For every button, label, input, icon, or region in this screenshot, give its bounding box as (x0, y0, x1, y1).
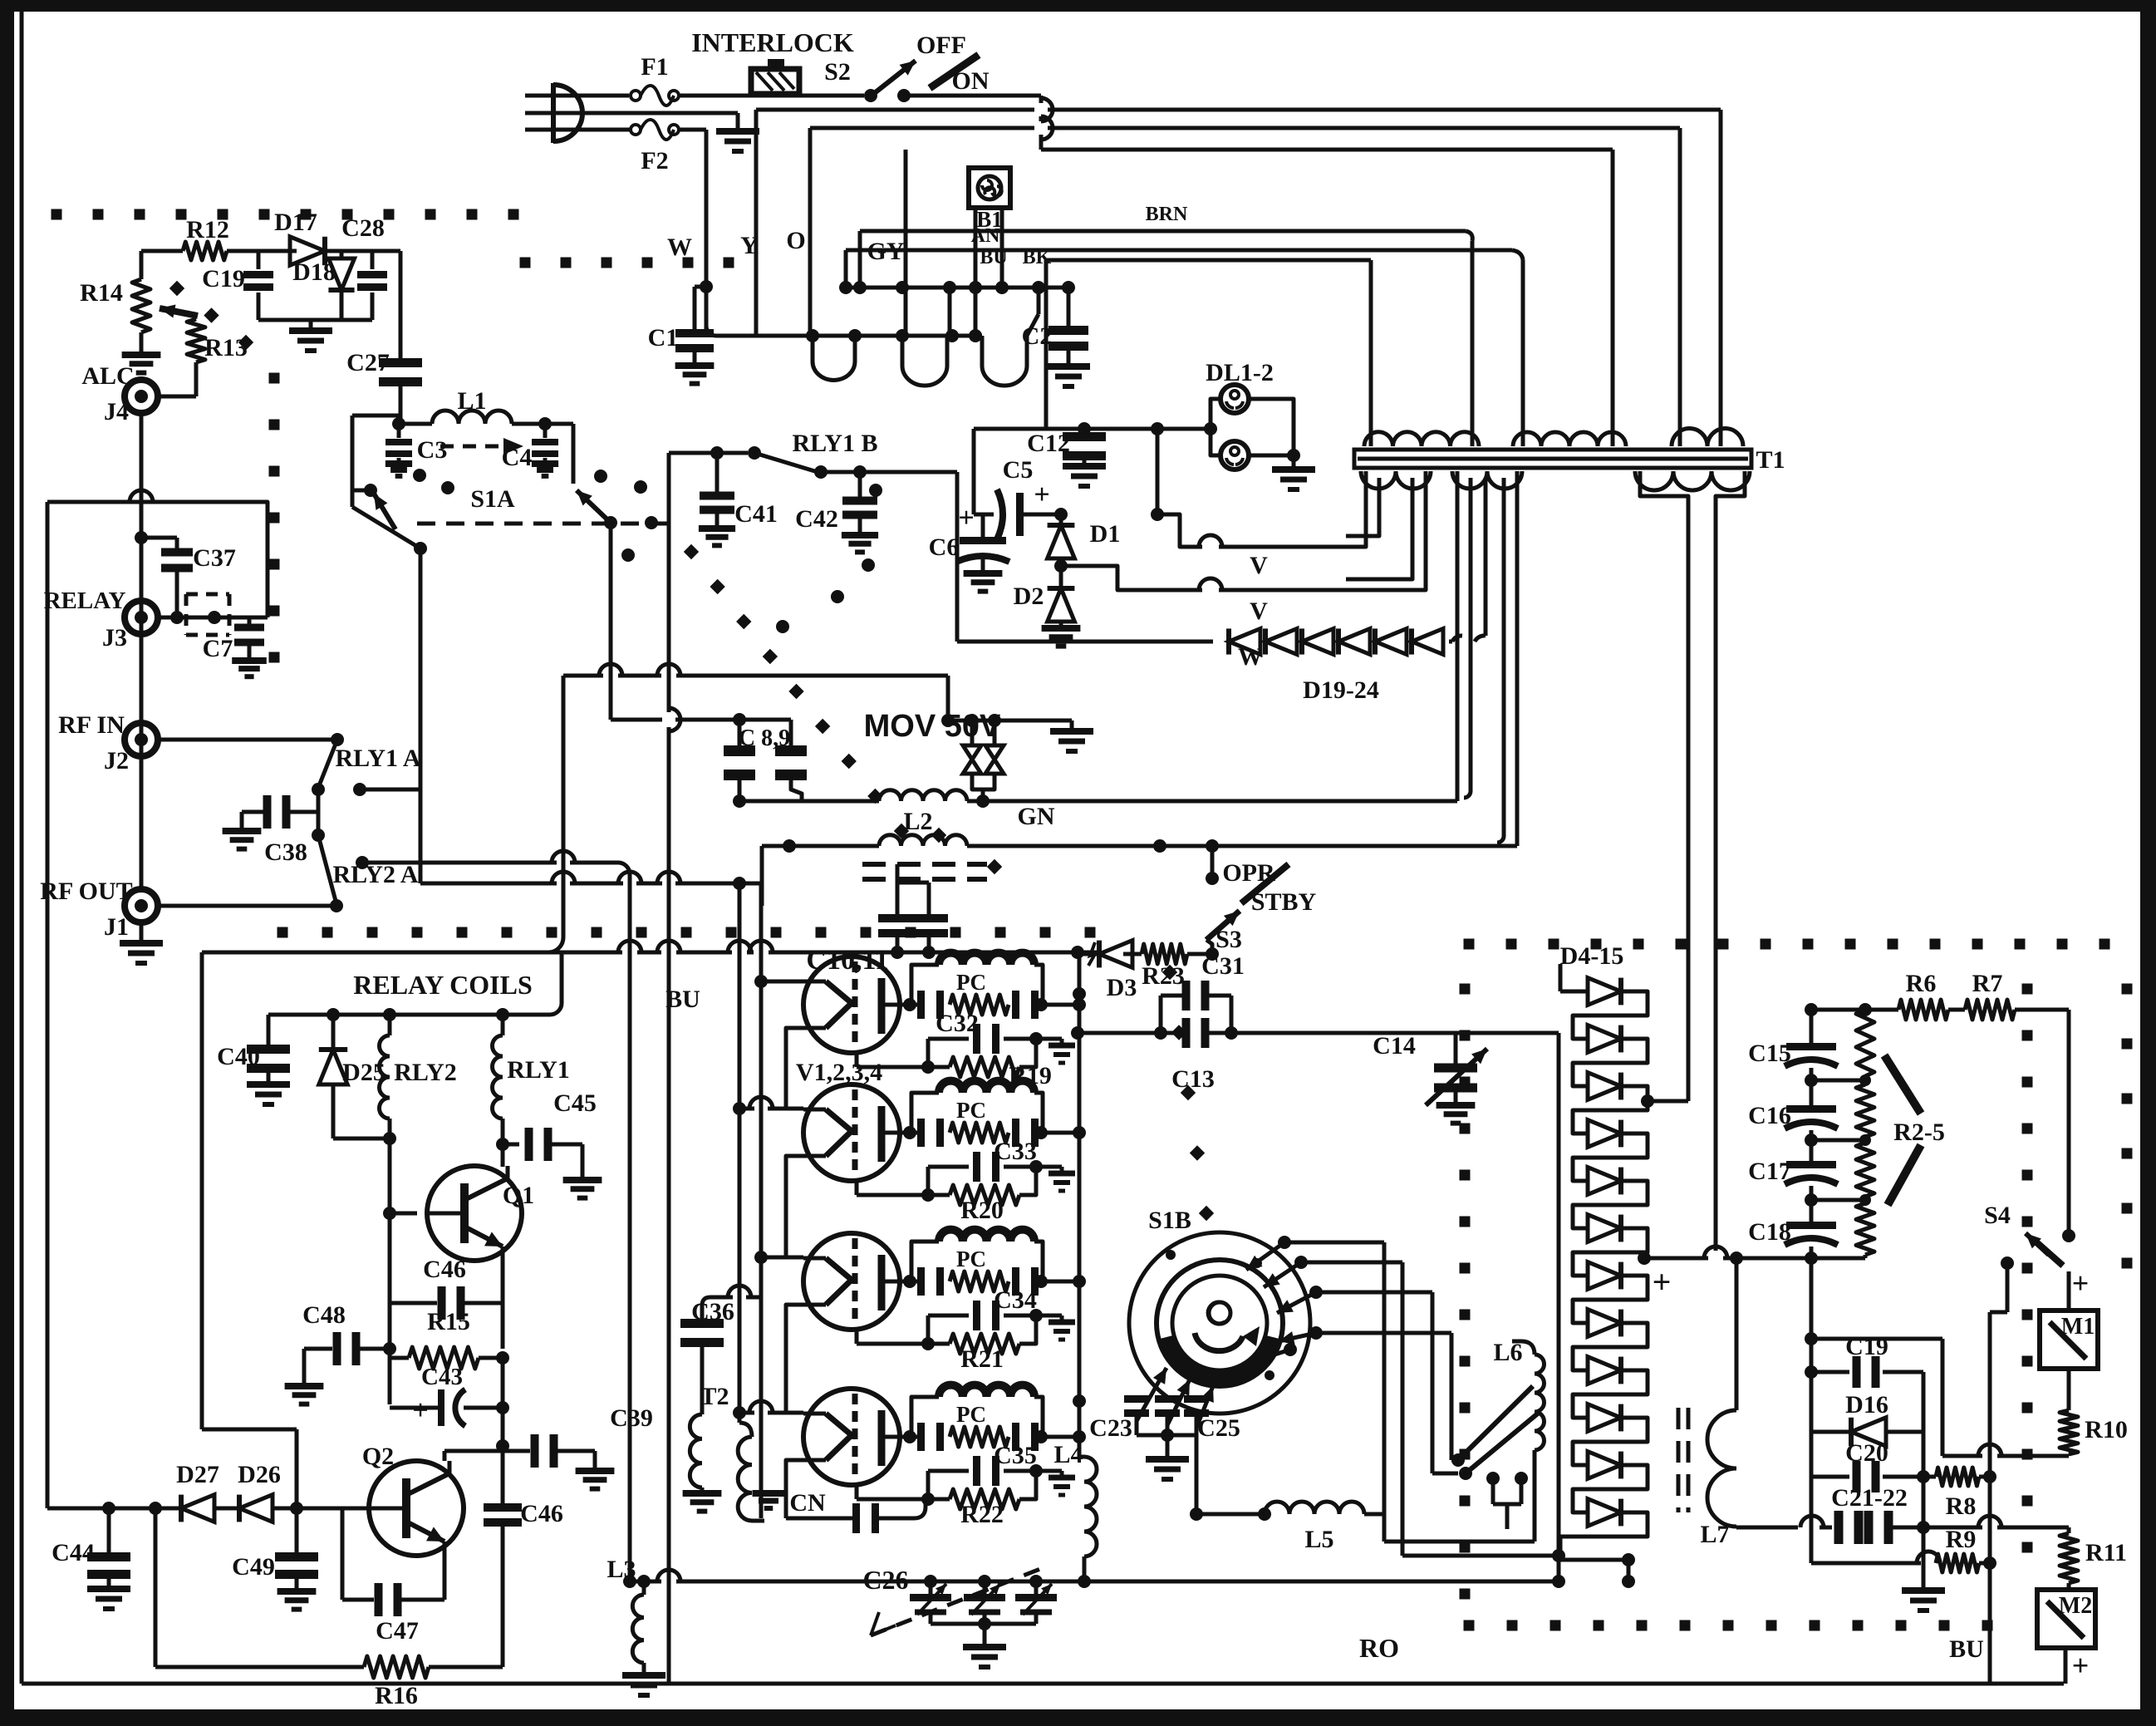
wire C14 box (1456, 1031, 1559, 1035)
svg-text:C45: C45 (553, 1089, 597, 1117)
svg-text:R2-5: R2-5 (1893, 1119, 1945, 1146)
resistor R6 (1898, 970, 1965, 1020)
grid feed V2 (733, 1097, 803, 1115)
svg-text:RLY1: RLY1 (507, 1056, 570, 1084)
resistor R11 (2060, 1533, 2127, 1590)
capacitor C49 (232, 1508, 318, 1610)
capacitor C18 (1748, 1208, 1838, 1246)
capacitor C46 q2 (484, 1500, 563, 1527)
capacitor C19 right (1811, 1333, 1923, 1388)
chassis dots diagonal S1A (684, 544, 1002, 874)
chassis dots HV left col (1460, 984, 1471, 1600)
svg-text:C23: C23 (1089, 1414, 1132, 1442)
svg-text:GN: GN (1018, 803, 1055, 830)
capacitor C38 (223, 789, 318, 866)
connector J3 RELAY (44, 588, 268, 652)
capacitor C39 (503, 1404, 653, 1489)
svg-text:C18: C18 (1748, 1218, 1791, 1246)
label W (667, 234, 692, 261)
svg-text:CN: CN (789, 1489, 826, 1517)
wire column GY (904, 150, 908, 336)
svg-text:C17: C17 (1748, 1158, 1791, 1185)
diode D2 (1014, 566, 1081, 647)
chassis dots col C27 (169, 281, 253, 350)
svg-text:R6: R6 (1906, 970, 1937, 997)
svg-text:RLY1 A: RLY1 A (335, 745, 420, 772)
chassis dots col left (269, 373, 280, 663)
label BU (980, 247, 1007, 268)
capacitor C20 (1811, 1432, 1923, 1492)
resistor R13 (158, 319, 248, 396)
diode D3 (1078, 941, 1142, 1001)
svg-text:Q1: Q1 (503, 1182, 534, 1209)
resistors R2-5 (1811, 1010, 1945, 1258)
wire bus GY y180 to T1 (1041, 150, 1613, 430)
wire F2 down W (679, 130, 706, 336)
box around C37 area (47, 490, 268, 952)
capacitor C2 (1022, 288, 1090, 386)
capacitor C44 (47, 502, 130, 1609)
capacitor C5 (974, 456, 1068, 539)
capacitors C21-22 (1800, 1372, 1945, 1610)
parasitic choke PC V3 (903, 1230, 1086, 1296)
rotary switch S1B (1129, 1207, 1310, 1414)
capacitor C42 (795, 465, 878, 552)
dashed box C7 (170, 594, 233, 662)
svg-text:PC: PC (956, 1247, 986, 1271)
coupling capacitor near CN (852, 1499, 926, 1533)
svg-text:D16: D16 (1845, 1391, 1888, 1419)
switch S1A wafer (417, 485, 675, 524)
ground plug neutral (716, 113, 759, 151)
svg-text:J3: J3 (102, 624, 127, 652)
chassis dots HV bottom row (1464, 1620, 1993, 1631)
transistor Q1 (383, 1166, 534, 1261)
grid feed V4 (733, 1401, 803, 1419)
svg-text:D3: D3 (1107, 974, 1137, 1001)
inductor L2 upper (739, 790, 990, 808)
ladder bottom wire (1560, 1553, 1635, 1588)
svg-text:+: + (958, 503, 974, 534)
label BU right (1949, 1635, 1984, 1663)
svg-text:F1: F1 (641, 53, 668, 81)
diode D25 (319, 1015, 396, 1145)
svg-text:C47: C47 (376, 1617, 419, 1645)
label V wires (1250, 552, 1268, 625)
svg-text:Q2: Q2 (362, 1443, 394, 1470)
ladder junction B+ wire (1638, 1247, 1811, 1301)
svg-text:C14: C14 (1373, 1032, 1416, 1060)
svg-text:RF OUT: RF OUT (40, 878, 132, 905)
label O (786, 227, 805, 254)
wire F1 to interlock (679, 94, 864, 98)
svg-text:C7: C7 (203, 635, 233, 662)
svg-text:S1A: S1A (470, 485, 515, 513)
svg-text:C25: C25 (1197, 1414, 1240, 1442)
diode D26 (238, 1461, 303, 1522)
rail x805 lower (667, 952, 671, 1684)
capacitor C6 (929, 503, 1009, 592)
svg-text:R20: R20 (960, 1197, 1004, 1224)
S1A dot near lever (645, 516, 658, 529)
wire L7 to C21-22 (1736, 1526, 1798, 1530)
capacitor C45 (496, 1089, 602, 1198)
blower B1 (969, 168, 1010, 232)
svg-text:R12: R12 (186, 216, 229, 243)
svg-text:R13: R13 (204, 334, 248, 361)
svg-text:RO: RO (1359, 1633, 1399, 1663)
tube V3 (803, 1233, 910, 1330)
T1 primary winding 3 (1672, 429, 1743, 447)
switch S4 (1984, 1202, 2075, 1684)
capacitor C19 left (202, 251, 273, 320)
svg-text:C35: C35 (994, 1442, 1037, 1469)
S1A dashed link (440, 438, 523, 455)
svg-text:+: + (1034, 479, 1049, 510)
wire x1876 HV down (1552, 1033, 1565, 1588)
svg-text:MOV 50V: MOV 50V (864, 709, 1001, 744)
inductor L7 core (1678, 1408, 1688, 1512)
svg-text:+: + (412, 1395, 428, 1426)
capacitor C26 variable (862, 1565, 1057, 1667)
inductor L1 (392, 387, 552, 430)
capacitor C37 (135, 531, 236, 617)
svg-text:R16: R16 (375, 1682, 418, 1709)
svg-text:D26: D26 (238, 1461, 281, 1488)
parasitic choke PC V2 (903, 1081, 1086, 1147)
rail x916 (759, 952, 764, 1518)
svg-text:D27: D27 (176, 1461, 219, 1488)
inductor L6 (1493, 1339, 1544, 1473)
ladder junction to HV1 (1641, 1094, 1688, 1108)
svg-text:C43: C43 (421, 1364, 463, 1390)
svg-text:C6: C6 (929, 534, 960, 561)
svg-text:+: + (2072, 1649, 2090, 1682)
wire C13 to C14 (1231, 1031, 1456, 1035)
svg-text:R14: R14 (80, 279, 123, 307)
resistor R23 (1142, 944, 1212, 990)
plate rail x1299 (1073, 954, 1086, 1457)
svg-text:ON: ON (952, 67, 990, 95)
wires S1B to L6 taps (1284, 1242, 1458, 1556)
rail BU x890 (665, 883, 739, 1423)
svg-text:R10: R10 (2085, 1416, 2128, 1443)
meter M2 (2037, 1590, 2095, 1684)
bottom bus y1903 (630, 1570, 1559, 1588)
capacitors C23 C24 C25 (1089, 1368, 1240, 1479)
inductor L5 (1190, 1435, 1384, 1553)
diode D18 (292, 251, 354, 320)
wire Q1 emitter down (496, 1401, 509, 1446)
capacitor C16 (1748, 1092, 1838, 1129)
connector J1 RF OUT (40, 878, 163, 963)
svg-text:S4: S4 (1984, 1202, 2011, 1229)
svg-text:C5: C5 (1003, 456, 1034, 484)
capacitor C41 (699, 453, 778, 545)
svg-text:D2: D2 (1014, 583, 1044, 610)
svg-text:C34: C34 (994, 1286, 1037, 1314)
rail x758 lower (623, 952, 636, 1588)
capacitor C15 (1748, 1030, 1838, 1067)
ground D17 D18 rail (258, 320, 372, 351)
svg-text:R9: R9 (1946, 1526, 1977, 1553)
svg-text:T1: T1 (1756, 446, 1785, 474)
svg-text:RF IN: RF IN (58, 711, 125, 739)
label RO (1359, 1633, 1399, 1663)
capacitor C46 q1 (390, 1256, 503, 1349)
svg-text:W: W (667, 234, 692, 261)
diodes D19-24 (1088, 628, 1462, 704)
connector J4 ALC (81, 362, 158, 425)
svg-text:C26: C26 (862, 1565, 908, 1595)
chassis dots HV top row (1464, 939, 2110, 950)
wire S1A wiper down (419, 548, 423, 883)
svg-text:C37: C37 (193, 544, 236, 572)
wire top right rail y1215 (1805, 1003, 2069, 1236)
interlock KS1 (691, 27, 854, 94)
svg-text:RELAY: RELAY (44, 588, 126, 614)
svg-text:RELAY COILS: RELAY COILS (353, 970, 532, 1000)
svg-text:R7: R7 (1972, 970, 2003, 997)
svg-text:BRN: BRN (1146, 204, 1188, 225)
parasitic choke PC V1 (903, 953, 1086, 1019)
potentiometer R14 (80, 251, 198, 373)
svg-text:M1: M1 (2061, 1314, 2095, 1340)
svg-text:PC: PC (956, 1402, 986, 1427)
svg-text:R8: R8 (1946, 1492, 1977, 1520)
svg-text:S3: S3 (1216, 926, 1242, 953)
column x2180 lower (1805, 1258, 1818, 1563)
wire bus Y y132 to T1 (756, 110, 1721, 430)
inductor L2 lower (762, 808, 1517, 906)
capacitor C28 (341, 214, 400, 366)
svg-text:C46: C46 (423, 1256, 466, 1283)
wire L6 bottoms (1384, 1473, 1565, 1562)
wire W to D19-24 (957, 484, 1263, 671)
wire column Y (756, 110, 813, 336)
svg-text:C46: C46 (520, 1500, 563, 1527)
wire S2 down to y180 bus (904, 96, 1053, 150)
tube V1 (803, 956, 910, 1053)
diode D17 (274, 209, 372, 265)
wire C5 block top (972, 429, 976, 514)
wire relay coils top rail (268, 952, 562, 1021)
switch S1A left pole (352, 416, 427, 555)
svg-text:M2: M2 (2059, 1593, 2092, 1619)
chassis dots right col (2122, 984, 2133, 1269)
capacitor C47 (342, 1508, 444, 1645)
connector J2 RF IN (58, 711, 337, 774)
meter M1 (2040, 1266, 2098, 1369)
relay contact RLY1 B (669, 430, 957, 484)
wire rail RLY1B x805 (669, 453, 680, 952)
fuse F2 (631, 120, 679, 175)
svg-text:INTERLOCK: INTERLOCK (691, 27, 854, 57)
svg-text:R15: R15 (427, 1308, 470, 1335)
lamps DL1-2 (1206, 359, 1315, 489)
relay contact RLY1 A (312, 733, 421, 796)
svg-text:C3: C3 (417, 436, 448, 464)
svg-text:R11: R11 (2085, 1539, 2127, 1566)
label RELAY COILS (353, 970, 532, 1000)
wire row y516 (974, 422, 1217, 435)
wire y1611 (1811, 1339, 1942, 1456)
capacitor C35 / resistor R22 (857, 1442, 1075, 1528)
diode ladder D4-15 (1560, 942, 1648, 1560)
junction row y346 (839, 281, 1075, 294)
svg-text:PC: PC (956, 970, 986, 995)
svg-text:V: V (1250, 597, 1268, 625)
fuse F1 (631, 53, 679, 106)
wires B1 legs (975, 209, 1002, 336)
wire BRN bus (860, 204, 1472, 430)
resistor R7 (1965, 970, 2015, 1020)
svg-text:BU: BU (665, 986, 700, 1013)
wire Q2 collector up (444, 1446, 503, 1461)
svg-text:S1B: S1B (1148, 1207, 1191, 1234)
svg-text:C20: C20 (1845, 1439, 1888, 1467)
svg-text:T2: T2 (700, 1383, 729, 1410)
svg-text:C19: C19 (202, 265, 245, 293)
capacitor C17 (1748, 1148, 1838, 1185)
tube V2 (803, 1084, 910, 1181)
transformer T1 core (1354, 446, 1785, 474)
wire y1146 relay feed (202, 941, 1099, 1429)
label V1234 (796, 1059, 882, 1086)
switch S3 opr/stby (1153, 839, 1317, 961)
svg-text:C1: C1 (648, 324, 679, 352)
wire R10 bottom (1942, 1444, 2069, 1456)
capacitor C33 / resistor R20 (857, 1138, 1075, 1224)
resistor R16 (149, 1439, 509, 1709)
capacitor C12 (1027, 429, 1106, 486)
svg-text:V: V (1250, 552, 1268, 579)
capacitor C3 (386, 424, 447, 476)
capacitor C36 (680, 1286, 761, 1414)
svg-text:AN: AN (971, 225, 1000, 247)
svg-text:RLY2 A: RLY2 A (332, 861, 418, 888)
relay coil RLY2 (380, 1015, 457, 1349)
inductor L3 (607, 1556, 665, 1695)
svg-text:C13: C13 (1171, 1065, 1215, 1093)
svg-text:C16: C16 (1748, 1102, 1791, 1129)
svg-text:+: + (1653, 1263, 1672, 1301)
svg-text:Y: Y (740, 232, 759, 259)
chassis dots mid row (277, 927, 1096, 938)
C15-18 column links (1805, 1068, 1865, 1265)
wire base Q2 from left (202, 1429, 339, 1508)
resistor R9 (1811, 1526, 1996, 1572)
wire bus y301 to T1 G2left (846, 250, 1523, 430)
capacitor under C7 (232, 617, 267, 676)
label GY (867, 238, 905, 265)
svg-text:C42: C42 (795, 505, 838, 533)
chassis dots top row (52, 209, 519, 220)
T1 primary winding 2 (1513, 430, 1626, 446)
winding CN (738, 1423, 826, 1521)
transformer T2 (683, 1383, 729, 1512)
parasitic choke PC V4 (903, 1385, 1086, 1451)
tube chain wires (786, 1028, 854, 1518)
capacitors C31 C13 (1071, 952, 1245, 1093)
svg-text:D19-24: D19-24 (1303, 676, 1379, 704)
switch S2 (824, 32, 990, 102)
svg-text:C15: C15 (1748, 1040, 1791, 1067)
label Y (740, 232, 759, 259)
tube V4 (803, 1389, 910, 1485)
wire y1063 to rail (420, 872, 761, 952)
svg-text:STBY: STBY (1251, 888, 1317, 916)
T1 primary winding 1 (1364, 430, 1479, 446)
capacitor C27 (346, 349, 422, 424)
svg-text:V1,2,3,4: V1,2,3,4 (796, 1059, 882, 1086)
svg-text:C48: C48 (302, 1301, 346, 1329)
capacitor C43 (390, 1358, 503, 1426)
resistor R15 (390, 1308, 509, 1404)
wire nest loops (706, 283, 1039, 386)
diode D27 (125, 1461, 239, 1522)
capacitor C32 / resistor R19 (857, 1010, 1075, 1089)
label BK (1023, 247, 1052, 268)
svg-text:DL1-2: DL1-2 (1206, 359, 1274, 386)
svg-text:L5: L5 (1304, 1526, 1333, 1553)
MOV 50V (864, 709, 1093, 801)
capacitor C1 (648, 280, 715, 384)
wire C21-22 to R11 (1923, 1516, 2069, 1533)
capacitors C8 C9 (611, 713, 807, 808)
T1 secondary winding 2 (HV) (1452, 471, 1522, 846)
svg-text:RLY2: RLY2 (394, 1059, 457, 1086)
svg-text:RLY1 B: RLY1 B (792, 430, 877, 457)
R2-5 slash marks (1884, 1055, 1921, 1205)
svg-text:C38: C38 (264, 838, 307, 866)
svg-text:C19: C19 (1845, 1333, 1888, 1360)
svg-text:C41: C41 (734, 500, 778, 528)
svg-text:F2: F2 (641, 147, 668, 175)
capacitor C4 (502, 424, 573, 484)
resistor R12 (141, 216, 297, 260)
resistor R10 (2060, 1369, 2128, 1456)
transistor Q2 (339, 1443, 464, 1556)
wire L2 to GN right (983, 801, 1457, 830)
svg-text:L4: L4 (1053, 1441, 1083, 1468)
L2 core dashes (862, 864, 987, 879)
wire D1 junction to V bus (1151, 429, 1329, 547)
chassis dots row2 (520, 258, 734, 268)
capacitor C40 (217, 1015, 290, 1104)
svg-text:BU: BU (1949, 1635, 1984, 1663)
grid feed V1 (754, 975, 803, 988)
capacitors C10 C11 (806, 864, 948, 976)
svg-text:+: + (2072, 1266, 2090, 1300)
svg-text:C32: C32 (936, 1010, 979, 1037)
chassis dots meter col (2022, 984, 2033, 1553)
wire column O (810, 128, 855, 336)
wire y813 bus (548, 664, 948, 952)
grid feed V3 (754, 1251, 803, 1264)
capacitor C48 (285, 1301, 396, 1404)
wire J4 to J1 vertical (140, 413, 144, 889)
label AN (971, 225, 1000, 247)
L6 tap levers (1451, 1386, 1539, 1529)
S1B contact arrows right (1246, 1236, 1323, 1362)
diode D16 (1811, 1372, 1923, 1446)
svg-text:PC: PC (956, 1098, 986, 1123)
AC plug P1 (525, 83, 738, 143)
relay contact RLY2 A (158, 829, 630, 952)
wire D2 junction to V bus (1061, 566, 1329, 590)
svg-text:R22: R22 (960, 1501, 1004, 1528)
